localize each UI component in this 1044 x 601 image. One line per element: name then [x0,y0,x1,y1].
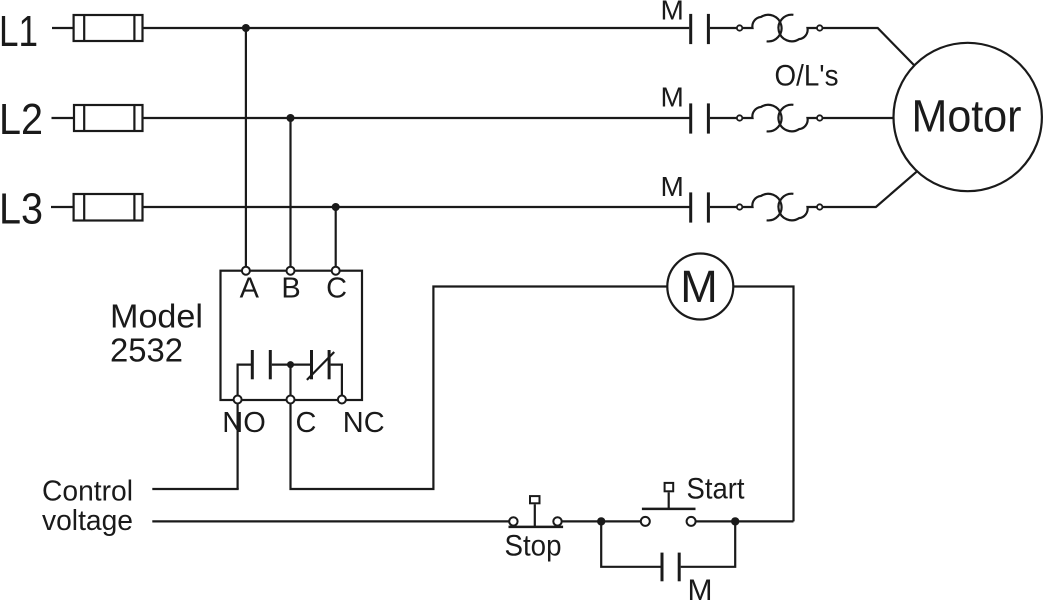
wire control to NO [152,488,238,490]
relay NC contact [312,350,330,379]
svg-text:L3: L3 [0,185,43,234]
terminal C top [326,267,347,305]
label Start [687,473,746,506]
wire stop to start [562,520,641,522]
wire L3 horizontal [143,206,691,208]
terminal NO [222,396,266,440]
wire aux left [601,521,660,566]
svg-text:NO: NO [222,407,266,439]
svg-text:L2: L2 [0,95,43,144]
contact M aux [662,553,679,582]
relay NC slash [307,352,334,380]
junction relay common [287,361,294,368]
label M aux [688,574,713,601]
svg-text:O/L's: O/L's [775,59,839,92]
wire coil to right rail [733,287,793,522]
svg-text:M: M [680,261,718,312]
svg-text:M: M [688,574,713,601]
overload OL3 [737,194,823,221]
terminal NC [338,396,385,440]
svg-text:Control: Control [42,476,133,508]
svg-text:NC: NC [343,407,385,439]
overload OL2 [737,105,823,132]
label Model 2532 [110,297,203,368]
svg-text:L1: L1 [0,7,38,56]
relay NO contact [252,350,270,379]
contact M1 label [661,0,684,26]
svg-text:Model: Model [110,297,203,334]
junction start-left [597,517,605,525]
svg-text:B: B [281,273,300,305]
pushbutton Start [641,483,696,526]
node L2 label [0,95,43,144]
svg-text:C: C [296,407,317,439]
wire L1 horizontal [143,27,690,29]
contact M3 label [661,171,684,202]
contact M1 [691,14,709,44]
relay box Model 2532 [221,271,363,400]
label O/L's [775,59,839,92]
wire M2 to OL2 [710,117,737,119]
wire OL3 to motor [822,172,916,207]
svg-text:M: M [661,81,684,112]
fuse F2 [74,105,143,131]
svg-text:voltage: voltage [42,505,133,537]
wire OL1 to motor [822,28,914,66]
motor MTR [894,43,1042,191]
wire L2 drop to terminal B [289,118,291,267]
wire OL2 to motor [822,117,893,119]
svg-text:A: A [240,273,260,305]
wire C to coil feed [291,287,668,490]
wire relay common mid [272,364,310,366]
terminal A [240,267,260,305]
contact M2 label [661,81,684,112]
wire L1 stub [52,27,74,29]
fuse F3 [74,194,143,221]
svg-text:C: C [326,273,347,305]
pushbutton Stop [509,496,564,527]
coil M [667,254,733,320]
terminal C bottom [287,396,317,440]
svg-text:Motor: Motor [912,91,1022,142]
svg-text:M: M [661,0,684,26]
wire M1 to OL1 [710,27,737,29]
overload OL1 [737,15,823,42]
fuse F1 [74,15,143,41]
node L3 label [0,185,43,234]
wire M3 to OL3 [710,206,737,208]
wire NO drop [237,404,239,490]
svg-text:Start: Start [687,473,746,506]
svg-text:2532: 2532 [110,332,183,369]
contact M3 [691,192,709,222]
wire start to rail [696,520,794,522]
label Stop [505,530,562,563]
junction L1 tap [242,24,250,32]
terminal B [281,267,300,305]
wire relay NC branch [331,365,342,396]
label Control voltage [42,476,133,538]
wire relay NO branch [238,365,251,396]
wire L3 drop to terminal C [335,207,337,267]
node L1 label [0,7,38,56]
contact M2 [691,103,709,133]
wire L3 stub [51,206,74,208]
svg-text:Stop: Stop [505,530,562,563]
wire L2 stub [52,117,75,119]
junction L3 tap [332,203,340,211]
wire relay common drop [289,365,291,396]
wire aux right [681,521,736,566]
junction start-right [731,517,739,525]
junction L2 tap [287,114,295,122]
wire L1 drop to terminal A [245,28,247,267]
wire L2 horizontal [143,117,690,119]
svg-text:M: M [661,171,684,202]
wire voltage rail [152,520,509,522]
